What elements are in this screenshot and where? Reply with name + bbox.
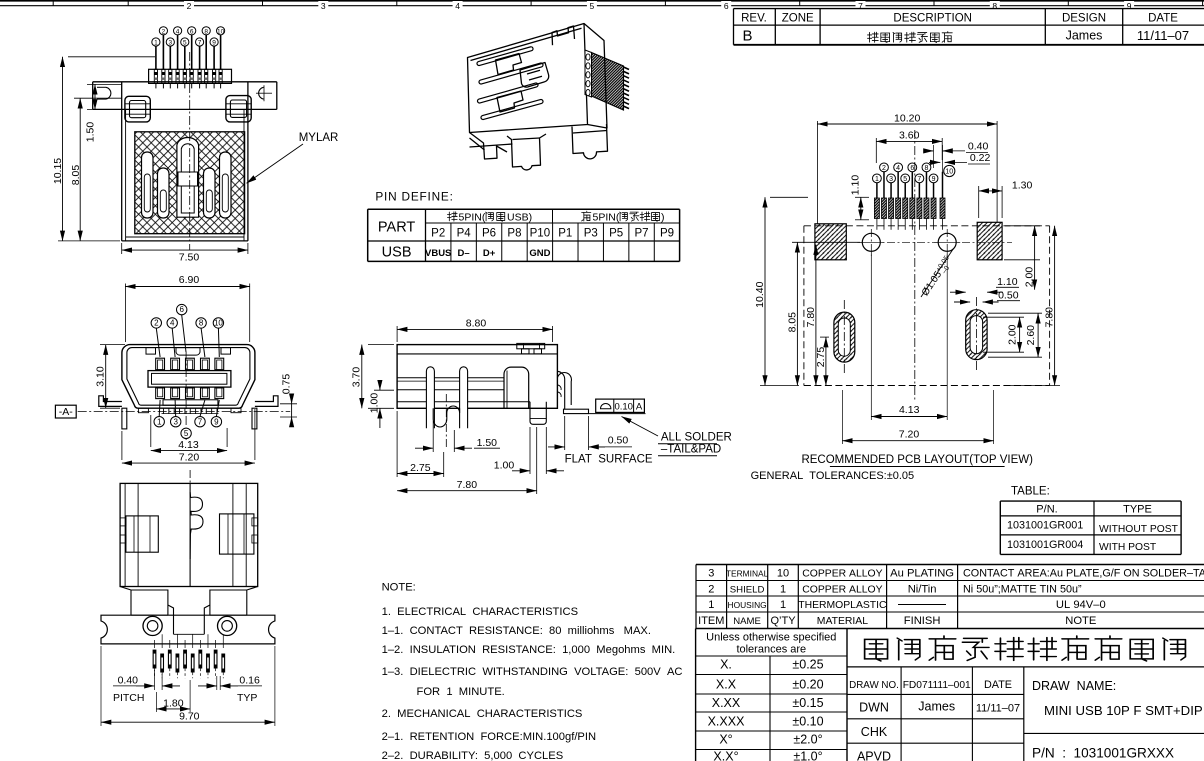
- dimension 10.15: [68, 56, 155, 58]
- revision description Chinese text 依实物修改图面: [868, 32, 879, 42]
- dimension 7.80 left: [815, 245, 817, 386]
- svg-text:3.70: 3.70: [351, 367, 363, 388]
- dimension 7.50: [121, 243, 123, 254]
- svg-text:1031001GR001: 1031001GR001: [1007, 520, 1083, 532]
- svg-text:3.60: 3.60: [899, 130, 920, 142]
- dimension 7.20 pcb: [841, 390, 843, 444]
- flatness tolerance frame: [596, 399, 645, 412]
- svg-text:2: 2: [708, 583, 714, 595]
- svg-text:0.40: 0.40: [968, 141, 989, 153]
- svg-text:1: 1: [780, 583, 786, 595]
- dimension 0.50 slot: [954, 301, 970, 303]
- svg-text:2: 2: [187, 1, 192, 11]
- svg-text:6.90: 6.90: [179, 274, 200, 286]
- svg-text:±0.15: ±0.15: [792, 696, 823, 710]
- pin define table: [368, 208, 680, 210]
- top view pin number circles: [152, 38, 160, 47]
- PCB oval slots hatched: [834, 312, 855, 362]
- svg-text:ZONE: ZONE: [782, 13, 814, 25]
- svg-text:A: A: [636, 401, 643, 412]
- svg-text:9: 9: [932, 176, 936, 183]
- svg-text:6: 6: [910, 165, 914, 172]
- svg-text:8.05: 8.05: [70, 165, 82, 186]
- ALL SOLDER-TAIL&PAD label: [622, 417, 659, 437]
- top view pin header block: [149, 69, 232, 83]
- svg-text:±0.10: ±0.10: [792, 715, 823, 729]
- tolerance table: [695, 629, 697, 761]
- svg-text:WITHOUT POST: WITHOUT POST: [1099, 524, 1179, 535]
- svg-text:1: 1: [157, 417, 162, 426]
- svg-text:DESCRIPTION: DESCRIPTION: [893, 13, 972, 25]
- svg-text:6: 6: [724, 1, 729, 11]
- svg-text:1–3. DIELECTRIC WITHSTANDING: 1–3. DIELECTRIC WITHSTANDING VOLTAGE: 50…: [382, 666, 683, 678]
- PCB footprint dashed outline: [804, 225, 1050, 227]
- side view center U notch: [433, 406, 459, 427]
- bottom view left contact block: [126, 516, 158, 552]
- svg-text:1.10: 1.10: [850, 175, 862, 196]
- svg-text:0.16: 0.16: [239, 675, 260, 687]
- front view pin leader lines: [156, 328, 160, 357]
- svg-text:James: James: [1066, 29, 1103, 43]
- svg-text:Unless otherwise specified: Unless otherwise specified: [706, 632, 836, 644]
- ruler zone numbers: [184, 1, 194, 9]
- svg-text:–TAIL&PAD: –TAIL&PAD: [661, 443, 721, 455]
- PCB pad number circles: [880, 163, 889, 172]
- svg-text:RECOMMENDED PCB LAYOUT(TOP VIE: RECOMMENDED PCB LAYOUT(TOP VIEW): [801, 454, 1033, 466]
- svg-text:7.80: 7.80: [805, 307, 817, 328]
- svg-text:P9: P9: [660, 228, 674, 240]
- dimension 3.70: [368, 344, 394, 346]
- svg-text:0.22: 0.22: [970, 152, 991, 164]
- svg-text:1.00: 1.00: [369, 393, 381, 414]
- svg-text:X.XX: X.XX: [712, 696, 741, 710]
- svg-text:X.XXX: X.XXX: [708, 715, 745, 729]
- top view side terminal slots: [142, 152, 154, 218]
- svg-text:8.80: 8.80: [466, 318, 487, 330]
- svg-text:9: 9: [214, 417, 219, 426]
- svg-text:TYPE: TYPE: [1123, 503, 1152, 515]
- top view left latch cutout: [125, 96, 150, 122]
- svg-text:±1.0°: ±1.0°: [793, 750, 822, 761]
- svg-text:1.00: 1.00: [494, 460, 515, 472]
- svg-text:10.40: 10.40: [754, 281, 766, 307]
- parts list table: [696, 564, 1204, 566]
- side view DIP legs: [426, 367, 434, 429]
- svg-text:PART: PART: [378, 220, 415, 236]
- svg-text:3: 3: [708, 568, 714, 580]
- dimension 7.20: [121, 431, 123, 460]
- svg-text:GND: GND: [529, 248, 550, 259]
- svg-text:2.00: 2.00: [1023, 267, 1035, 288]
- front view top inner notches: [146, 348, 156, 355]
- dimension 6.90: [124, 284, 126, 343]
- svg-text:James: James: [918, 700, 955, 714]
- svg-text:1. ELECTRICAL CHARACTERISTIC: 1. ELECTRICAL CHARACTERISTICS: [382, 606, 578, 618]
- svg-text:X.: X.: [720, 658, 732, 672]
- svg-text:10.15: 10.15: [52, 158, 64, 184]
- svg-text:P6: P6: [482, 228, 496, 240]
- isometric pin comb contacts: [585, 50, 592, 97]
- svg-text:7.50: 7.50: [179, 251, 200, 263]
- svg-text:2: 2: [162, 28, 166, 35]
- bottom view recess bottom line: [174, 633, 205, 635]
- svg-text:10: 10: [777, 568, 789, 580]
- front view side solder tabs: [99, 396, 122, 407]
- dimension 3.10: [100, 344, 125, 346]
- bottom view DIP pin field: [154, 640, 156, 648]
- svg-text:7: 7: [198, 40, 202, 47]
- dimension 1.10 slot: [965, 292, 967, 302]
- svg-text:1–2. INSULATION RESISTANCE:: 1–2. INSULATION RESISTANCE: 1,000 Megohm…: [382, 644, 676, 656]
- top view flange right ear center mark: [256, 92, 272, 94]
- svg-text:±0.20: ±0.20: [792, 678, 823, 692]
- dimension 3.60: [875, 138, 877, 163]
- bottom view latch zigzag: [190, 492, 203, 559]
- svg-text:9.70: 9.70: [179, 711, 200, 723]
- svg-text:DRAW NO.: DRAW NO.: [849, 680, 899, 691]
- svg-text:1.10: 1.10: [997, 276, 1018, 288]
- svg-text:10: 10: [217, 28, 225, 35]
- svg-text:7: 7: [198, 417, 203, 426]
- pin define header 上5PIN(扩展功能): [582, 211, 591, 221]
- svg-text:6: 6: [179, 305, 184, 314]
- company name 厦门奥飞诺科技有限公司: [865, 639, 888, 661]
- side view small hooks right: [557, 385, 561, 397]
- svg-text:DATE: DATE: [1148, 13, 1178, 25]
- top view right latch cutout: [226, 96, 251, 122]
- bottom view screw bosses: [143, 616, 162, 635]
- svg-text:NOTE: NOTE: [1065, 615, 1096, 627]
- front view tongue: [148, 371, 231, 388]
- svg-text:2.75: 2.75: [410, 462, 431, 474]
- svg-text:2: 2: [882, 165, 886, 172]
- svg-text:DATE: DATE: [984, 679, 1012, 691]
- svg-text:APVD: APVD: [857, 750, 891, 761]
- svg-text:P2: P2: [431, 228, 445, 240]
- svg-text:1031001GR004: 1031001GR004: [1007, 539, 1083, 551]
- dimension 1.30: [978, 186, 980, 218]
- svg-text:0.75: 0.75: [281, 374, 293, 395]
- dimension 2.75 pcb: [820, 336, 829, 338]
- front view bottom pin leader lines: [158, 400, 161, 416]
- svg-text:9: 9: [212, 40, 216, 47]
- svg-text:HOUSING: HOUSING: [728, 600, 767, 610]
- svg-text:SHIELD: SHIELD: [730, 584, 765, 595]
- svg-text:11/11–07: 11/11–07: [1137, 28, 1189, 43]
- dimension 8.05: [74, 97, 122, 99]
- svg-text:X.X°: X.X°: [713, 750, 738, 761]
- svg-text:TABLE:: TABLE:: [1011, 486, 1050, 498]
- svg-text:10: 10: [214, 319, 223, 328]
- svg-text:PITCH: PITCH: [113, 692, 145, 704]
- svg-text:VBUS: VBUS: [425, 248, 451, 259]
- dimension 0.40 PITCH: [154, 670, 156, 690]
- isometric pin comb: [592, 53, 624, 111]
- bottom view lower feet: [120, 587, 258, 635]
- svg-text:2. MECHANICAL CHARACTERISTIC: 2. MECHANICAL CHARACTERISTICS: [382, 708, 583, 720]
- svg-text:P3: P3: [584, 228, 598, 240]
- svg-text:4: 4: [896, 165, 900, 172]
- svg-text:FLAT SURFACE: FLAT SURFACE: [565, 453, 653, 465]
- svg-text:FOR 1 MINUTE.: FOR 1 MINUTE.: [417, 686, 505, 698]
- svg-text:5PIN(: 5PIN(: [593, 211, 620, 223]
- top view center terminal: [177, 137, 199, 217]
- revision table: [734, 9, 1204, 45]
- bottom view center seam: [189, 470, 191, 483]
- title block: [847, 666, 1204, 668]
- dimension 10.20: [816, 121, 818, 224]
- svg-text:COPPER ALLOY: COPPER ALLOY: [802, 584, 882, 595]
- svg-text:DWN: DWN: [859, 701, 889, 715]
- svg-text:1: 1: [875, 176, 879, 183]
- svg-text:P4: P4: [457, 228, 472, 240]
- side view housing block: [504, 367, 529, 408]
- svg-text:10.20: 10.20: [894, 112, 920, 124]
- side view top latch detail: [517, 343, 545, 348]
- svg-text:DESIGN: DESIGN: [1062, 13, 1106, 25]
- svg-text:4.13: 4.13: [899, 404, 920, 416]
- svg-text:TYP: TYP: [237, 692, 257, 704]
- svg-text:1.50: 1.50: [477, 437, 498, 449]
- svg-text:Ni 50u”;MATTE TIN 50u”: Ni 50u”;MATTE TIN 50u”: [963, 583, 1082, 595]
- svg-text:REV.: REV.: [741, 13, 767, 25]
- svg-text:GENERAL TOLERANCES:±0.05: GENERAL TOLERANCES:±0.05: [751, 470, 915, 482]
- dimension 10.40: [770, 196, 808, 198]
- svg-text:2–2. DURABILITY: 5,000 CYCL: 2–2. DURABILITY: 5,000 CYCLES: [382, 750, 564, 761]
- svg-text:USB: USB: [382, 245, 412, 261]
- front view body outline: [122, 345, 255, 409]
- side view body: [397, 345, 557, 409]
- svg-text:8: 8: [925, 165, 929, 172]
- svg-text:7.80: 7.80: [1043, 307, 1055, 328]
- bottom view flange: [101, 615, 275, 644]
- svg-text:2.75: 2.75: [815, 347, 827, 368]
- svg-text:7: 7: [917, 176, 921, 183]
- svg-text:8: 8: [204, 28, 208, 35]
- svg-text:P1: P1: [558, 228, 572, 240]
- svg-text:THERMOPLASTIC: THERMOPLASTIC: [798, 600, 887, 611]
- svg-text:NOTE:: NOTE:: [382, 582, 416, 594]
- svg-text:1: 1: [708, 599, 714, 611]
- dimension 8.05 pcb: [792, 241, 860, 243]
- PCB centerlines: [914, 130, 916, 400]
- svg-text:1.30: 1.30: [1012, 180, 1033, 192]
- isometric 3D view of connector: [468, 24, 608, 170]
- side view DIP post: [530, 402, 546, 425]
- front view pin number circles bottom: [154, 417, 164, 427]
- svg-text:3: 3: [168, 40, 172, 47]
- svg-text:COPPER ALLOY: COPPER ALLOY: [802, 569, 882, 580]
- svg-text:10: 10: [945, 169, 953, 176]
- svg-text:-A-: -A-: [59, 406, 74, 418]
- svg-text:tolerances are: tolerances are: [736, 644, 806, 656]
- svg-text:4: 4: [170, 319, 175, 328]
- svg-text:11/11–07: 11/11–07: [976, 703, 1020, 715]
- svg-text:MYLAR: MYLAR: [299, 132, 339, 144]
- svg-text:5: 5: [590, 1, 595, 11]
- svg-text:P/N : 1031001GRXXX: P/N : 1031001GRXXX: [1032, 746, 1174, 761]
- front view pin number circles top: [177, 304, 187, 314]
- svg-text:0.50: 0.50: [998, 290, 1019, 302]
- svg-text:WITH POST: WITH POST: [1099, 542, 1157, 553]
- dimension 2.60 slot: [988, 312, 1042, 314]
- variant table: [1000, 500, 1181, 502]
- dimension 4.13 pcb: [870, 252, 872, 420]
- svg-text:0.10: 0.10: [614, 401, 633, 412]
- dimension 0.16 TYP: [216, 676, 218, 690]
- svg-text:5: 5: [184, 429, 189, 438]
- dimension 8.80: [396, 326, 398, 342]
- svg-text:Ni/Tin: Ni/Tin: [908, 583, 937, 595]
- side view solder plane line: [589, 413, 646, 415]
- svg-text:6: 6: [190, 28, 194, 35]
- top view body outline: [121, 82, 123, 241]
- svg-text:7.80: 7.80: [457, 479, 478, 491]
- svg-text:X°: X°: [719, 733, 732, 747]
- svg-text:±2.0°: ±2.0°: [793, 733, 822, 747]
- svg-text:X.X: X.X: [716, 678, 737, 692]
- svg-text:Q’TY: Q’TY: [770, 615, 796, 627]
- svg-text:DRAW NAME:: DRAW NAME:: [1032, 679, 1116, 693]
- side view SMT lead: [557, 371, 564, 409]
- svg-text:2.00: 2.00: [1007, 324, 1019, 345]
- top view flange left ear notch: [106, 87, 111, 99]
- svg-text:5PIN(: 5PIN(: [459, 211, 486, 223]
- svg-text:PIN DEFINE:: PIN DEFINE:: [375, 190, 453, 204]
- svg-text:1–1. CONTACT RESISTANCE: 80: 1–1. CONTACT RESISTANCE: 80 milliohms MA…: [382, 625, 651, 637]
- side view rails: [397, 377, 504, 379]
- bottom view right contact block: [220, 514, 254, 554]
- svg-text:UL 94V–0: UL 94V–0: [1056, 599, 1106, 611]
- top view pin leads: [155, 44, 157, 69]
- svg-text:7.20: 7.20: [899, 429, 920, 441]
- svg-text:3: 3: [889, 176, 893, 183]
- svg-text:NAME: NAME: [733, 616, 761, 627]
- dimension 7.80 right: [1006, 385, 1060, 387]
- PCB through holes: [857, 241, 1012, 243]
- front view bottom insert: [163, 400, 218, 406]
- svg-text:P8: P8: [507, 228, 521, 240]
- top view mylar hatched window: [135, 132, 245, 234]
- svg-text:0.40: 0.40: [118, 675, 139, 687]
- dimension 1.00 bottom: [529, 427, 531, 474]
- dimension 1.50: [87, 83, 122, 85]
- svg-text:FD071111–001: FD071111–001: [903, 680, 971, 691]
- dimension 1.50 side: [432, 421, 434, 452]
- svg-text:CHK: CHK: [861, 725, 888, 739]
- top view vertical centerline: [189, 52, 191, 250]
- svg-text:2–1. RETENTION FORCE:MIN.100: 2–1. RETENTION FORCE:MIN.100gf/PIN: [382, 731, 596, 743]
- svg-text:8.05: 8.05: [786, 312, 798, 333]
- svg-text:1: 1: [154, 40, 158, 47]
- dimension 0.22 pcb: [929, 161, 940, 163]
- svg-text:5: 5: [183, 40, 187, 47]
- datum label -A-: [55, 405, 76, 418]
- svg-text:P5: P5: [609, 228, 623, 240]
- dimension 2.75: [396, 411, 398, 477]
- svg-text:7.20: 7.20: [179, 452, 200, 464]
- dimension 0.50: [564, 416, 566, 450]
- svg-text:ALL SOLDER: ALL SOLDER: [661, 431, 732, 443]
- svg-text:±0.25: ±0.25: [792, 658, 823, 672]
- dimension 0.75: [280, 403, 297, 405]
- bottom view body outline: [120, 483, 258, 586]
- svg-text:P10: P10: [530, 228, 550, 240]
- svg-text:B: B: [742, 28, 752, 45]
- svg-text:2.60: 2.60: [1025, 325, 1037, 346]
- PCB right keepout square hatched: [977, 222, 1002, 259]
- pin define header 下5PIN(标准USB): [447, 212, 457, 221]
- front view bottom comb teeth: [163, 408, 165, 413]
- svg-text:0.50: 0.50: [608, 435, 629, 447]
- svg-text:D+: D+: [483, 248, 496, 259]
- svg-text:D–: D–: [458, 248, 470, 259]
- front view lower contacts: [156, 388, 165, 399]
- svg-text:TERMINAL: TERMINAL: [726, 569, 769, 579]
- front view upper contacts: [156, 358, 165, 370]
- dimension 4.13: [150, 415, 152, 447]
- front view centerlines: [78, 411, 291, 413]
- svg-text:8: 8: [199, 319, 204, 328]
- svg-text:USB): USB): [507, 211, 532, 223]
- svg-text:): ): [661, 211, 665, 223]
- svg-text:Au PLATING: Au PLATING: [890, 568, 954, 580]
- drawing frame ruler band: [0, 0, 1204, 2]
- svg-text:4: 4: [176, 28, 180, 35]
- svg-text:3: 3: [321, 1, 326, 11]
- svg-text:P7: P7: [635, 228, 649, 240]
- svg-text:2: 2: [154, 319, 159, 328]
- svg-text:MATERIAL: MATERIAL: [817, 616, 868, 627]
- dimension 7.80 side: [536, 427, 538, 494]
- dimension 1.80: [155, 692, 157, 712]
- svg-text:CONTACT AREA:Au PLATE,G/F ON S: CONTACT AREA:Au PLATE,G/F ON SOLDER–TAIL: [963, 568, 1204, 580]
- dimension 1.10 pcb left: [855, 196, 869, 198]
- dimension 2.00 slot: [983, 316, 1024, 318]
- front view legs: [122, 408, 127, 429]
- svg-text:3.10: 3.10: [95, 366, 107, 387]
- dimension 0.40 pcb: [925, 150, 934, 152]
- top view shield flange: [93, 81, 277, 83]
- svg-text:ITEM: ITEM: [698, 615, 724, 627]
- svg-text:4: 4: [455, 1, 460, 11]
- PCB pads hatched: [874, 198, 879, 219]
- svg-text:5: 5: [903, 176, 907, 183]
- svg-text:1.50: 1.50: [85, 122, 97, 143]
- svg-text:1.80: 1.80: [163, 698, 184, 710]
- dimension 9.70: [100, 646, 102, 726]
- dimension 2.00 right square: [1005, 225, 1040, 227]
- svg-text:3: 3: [173, 417, 178, 426]
- dimension 1.00 left: [374, 389, 394, 391]
- svg-text:FINISH: FINISH: [904, 615, 941, 627]
- svg-text:P/N.: P/N.: [1036, 503, 1057, 515]
- PCB left keepout square hatched: [815, 224, 846, 260]
- svg-text:4.13: 4.13: [178, 439, 199, 451]
- svg-text:1: 1: [780, 599, 786, 611]
- svg-text:MINI USB 10P F SMT+DIP: MINI USB 10P F SMT+DIP: [1044, 703, 1203, 718]
